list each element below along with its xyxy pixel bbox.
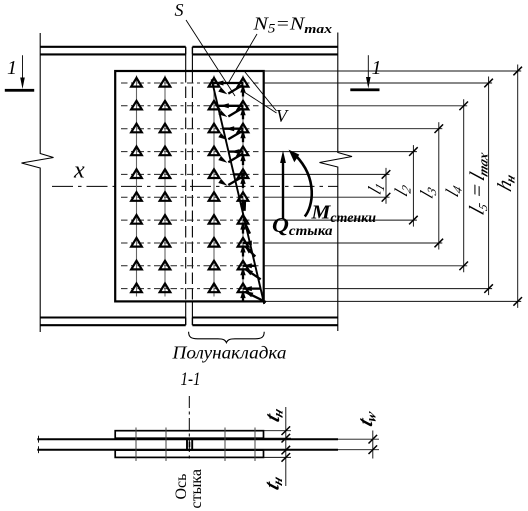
- shear force arrows V on right bolt column: [240, 84, 245, 302]
- section: t dimension line (covers): [264, 407, 292, 486]
- section: bolt axis lines: [136, 428, 255, 462]
- section joint axis line: [188, 396, 190, 461]
- svg-text:x: x: [73, 158, 85, 184]
- dimension line l1: [382, 168, 391, 204]
- moment M curved arrow: [289, 150, 312, 217]
- high-strength bolts (triangle symbols, 4 columns x 10 rows): [131, 78, 248, 292]
- dimension line l5: [484, 77, 493, 296]
- svg-text:S: S: [175, 0, 184, 20]
- right web joint edge (hidden dashed through plate): [191, 54, 193, 317]
- svg-text:Полунакладка: Полунакладка: [171, 343, 286, 363]
- dimension extension lines: [264, 71, 522, 301]
- svg-text:1: 1: [372, 57, 382, 79]
- top flange left beam: [40, 47, 186, 55]
- right beam break (cut) line: [320, 33, 353, 332]
- bolt force distribution line S (slanted): [212, 79, 265, 304]
- top flange right beam: [192, 47, 337, 55]
- moment force arrows N on right bolt column: [213, 81, 261, 292]
- resultant force arrows on right bolt column: [218, 85, 266, 302]
- section cut marker 1 right: [350, 55, 381, 91]
- svg-text:1: 1: [7, 57, 17, 79]
- leaders from V label: [242, 72, 277, 114]
- section: web joint gap: [187, 439, 192, 450]
- leader from N5 label: [229, 34, 257, 83]
- bolt row centre dashed lines: [121, 83, 259, 289]
- leader from S to force line: [186, 20, 235, 96]
- section: bottom cover plate: [115, 450, 263, 457]
- dimension line hn: [513, 65, 522, 308]
- dimension lines with ticks: [382, 65, 522, 308]
- brace over half cover plate: [189, 332, 265, 343]
- section: top cover plate: [115, 431, 263, 439]
- neutral axis x dash-dot line: [52, 185, 338, 187]
- left web joint edge (hidden dashed through plate): [185, 54, 187, 317]
- left beam break (cut) line: [22, 33, 54, 332]
- section cut marker 1 left: [5, 55, 34, 92]
- svg-text:1-1: 1-1: [181, 370, 201, 390]
- splice cover plate outline: [115, 71, 264, 301]
- shear Q arrow: [280, 151, 286, 220]
- bottom flange left beam: [40, 318, 186, 326]
- dimension line l2: [409, 145, 418, 227]
- section: beam web strip: [37, 436, 338, 453]
- label Ось стыка: [173, 469, 205, 508]
- bolt column axis lines: [137, 76, 244, 297]
- dimension line l4: [459, 99, 468, 272]
- section: tw dimension (web thickness): [338, 431, 379, 459]
- bottom flange right beam: [192, 318, 337, 326]
- dimension line l3: [435, 122, 444, 249]
- svg-text:стыка: стыка: [188, 469, 205, 508]
